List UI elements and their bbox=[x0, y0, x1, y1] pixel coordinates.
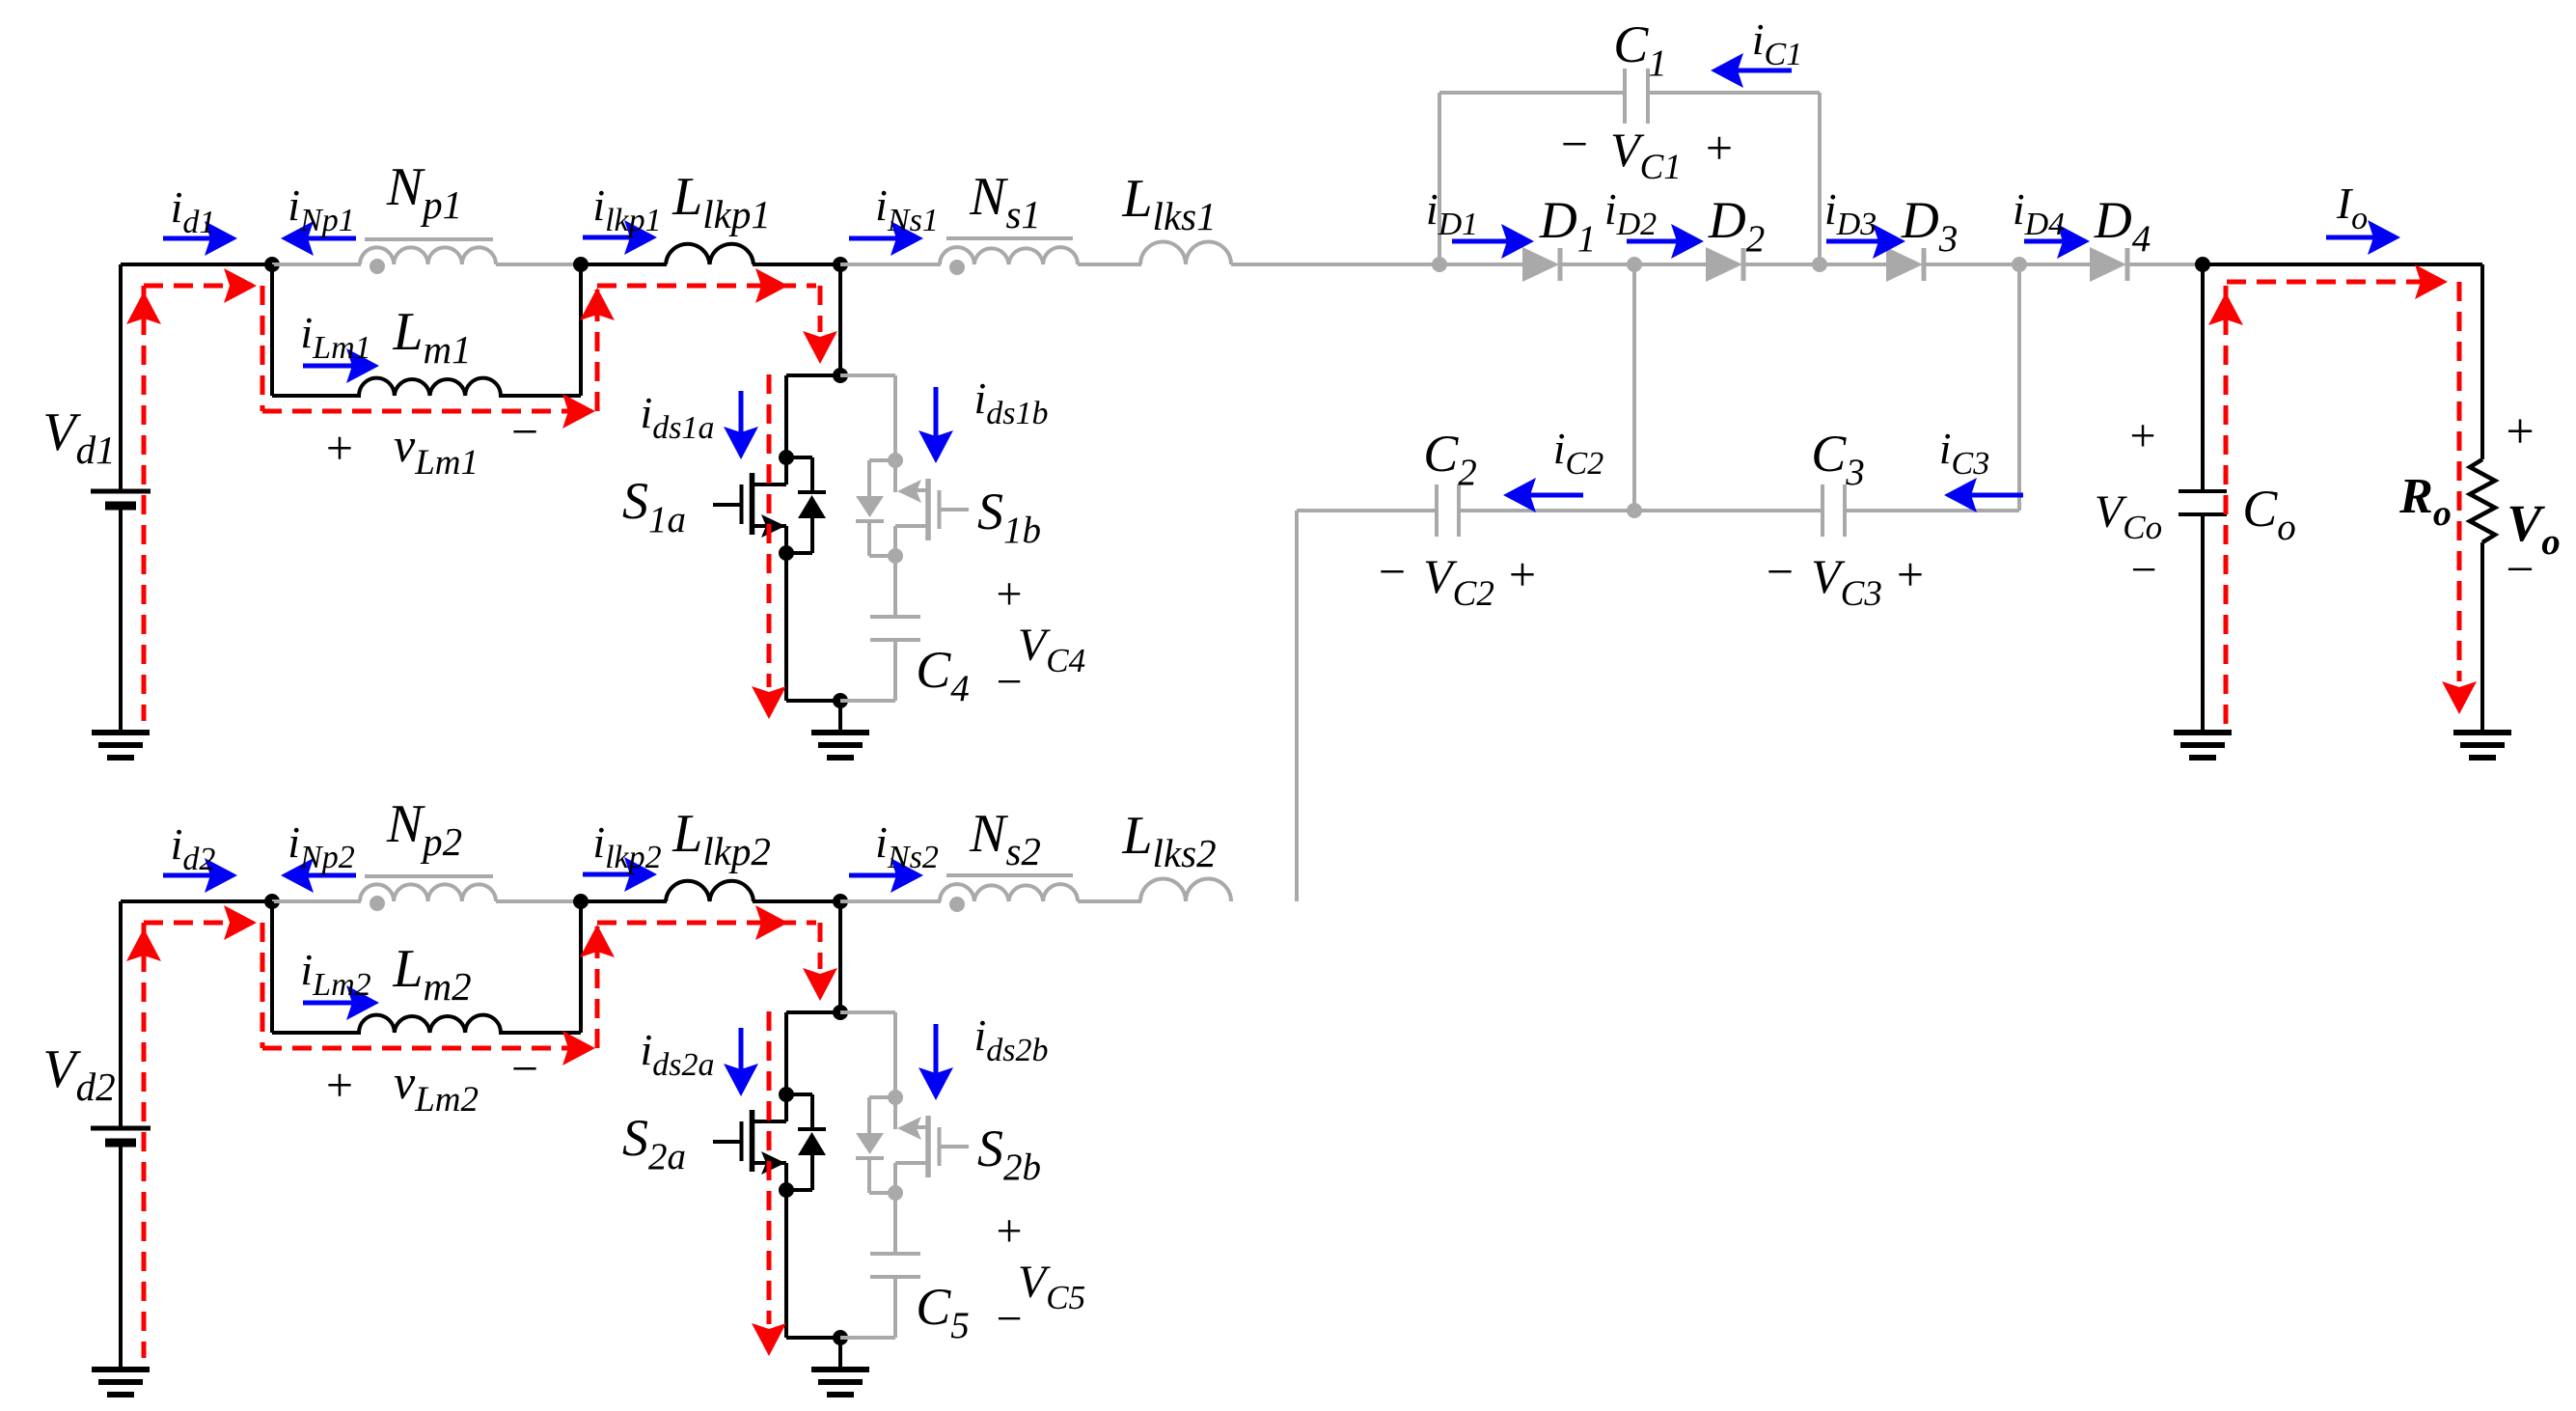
capacitor C2 bbox=[1435, 484, 1439, 537]
svg-text:+: + bbox=[326, 421, 353, 475]
node B (C2 junction) bbox=[1560, 263, 1638, 266]
wire S1a source to ground bbox=[784, 553, 788, 701]
svg-text:S2a: S2a bbox=[622, 1109, 686, 1177]
svg-text:D1: D1 bbox=[1539, 191, 1597, 260]
svg-text:C4: C4 bbox=[916, 641, 970, 709]
node E output bbox=[2195, 257, 2210, 272]
red current path under rail 1 part1 bbox=[144, 284, 259, 289]
MOSFET S2a bbox=[784, 1094, 788, 1121]
blue arrow ilkp2 bbox=[583, 872, 630, 877]
svg-text:iLm1: iLm1 bbox=[300, 308, 370, 366]
node N3-2 bbox=[833, 894, 848, 909]
svg-text:Co: Co bbox=[2242, 480, 2296, 548]
svg-text:iNs1: iNs1 bbox=[875, 180, 939, 238]
blue arrow iNs2 bbox=[849, 873, 896, 878]
svg-text:iD3: iD3 bbox=[1824, 184, 1877, 242]
blue arrow iNp2 bbox=[308, 873, 356, 878]
svg-text:D4: D4 bbox=[2094, 191, 2151, 260]
magnetizing inductor Lm1 loop bbox=[270, 264, 274, 396]
node N4-2 bbox=[833, 1005, 848, 1020]
node primary-dot junction bbox=[264, 257, 280, 272]
blue arrow iD4 bbox=[2024, 239, 2063, 244]
clamp capacitor C4 bbox=[893, 556, 897, 617]
capacitor C1 loop bbox=[1438, 93, 1441, 264]
node C2-C3 row junction bbox=[1627, 503, 1642, 518]
svg-text:Llkp1: Llkp1 bbox=[671, 167, 771, 236]
wire to S1a drain bbox=[786, 373, 840, 377]
diode D2 bbox=[1634, 263, 1707, 266]
node C (C1 right junction) bbox=[1743, 263, 1823, 266]
transformer primary polarity dot Np1 bbox=[370, 259, 385, 274]
svg-text:Ns1: Ns1 bbox=[969, 167, 1041, 236]
svg-text:S1a: S1a bbox=[622, 472, 686, 540]
clamp capacitor C5 bbox=[893, 1193, 897, 1254]
svg-text:+: + bbox=[326, 1058, 353, 1112]
node N1-1 bbox=[573, 257, 589, 272]
wire output top rail bbox=[2203, 263, 2482, 266]
node S2b source bbox=[888, 1185, 903, 1201]
svg-text:Llkp2: Llkp2 bbox=[671, 804, 771, 873]
svg-text:D3: D3 bbox=[1901, 191, 1959, 260]
red current path Lm2 loop bbox=[260, 923, 265, 1048]
svg-text:id2: id2 bbox=[171, 819, 216, 877]
red current path under rail 2 part2 bbox=[597, 921, 816, 926]
svg-text:−: − bbox=[2506, 542, 2534, 597]
blue arrow iD1 bbox=[1452, 239, 1507, 244]
wire to S2b drain (gray) bbox=[840, 1010, 895, 1014]
blue arrow ilkp1 bbox=[583, 235, 630, 240]
svg-text:C5: C5 bbox=[916, 1278, 970, 1346]
blue arrow iC2 bbox=[1530, 493, 1583, 498]
svg-text:Vd1: Vd1 bbox=[42, 402, 115, 472]
secondary leakage inductor Llks1 bbox=[1140, 242, 1231, 265]
svg-text:−: − bbox=[1767, 544, 1794, 598]
svg-text:Io: Io bbox=[2336, 179, 2368, 236]
MOSFET S1b bbox=[893, 460, 897, 492]
svg-text:vLm2: vLm2 bbox=[394, 1055, 479, 1120]
red current path output top bbox=[2227, 280, 2426, 285]
svg-text:Ro: Ro bbox=[2398, 469, 2452, 534]
svg-text:Np1: Np1 bbox=[386, 157, 462, 227]
svg-text:Llks1: Llks1 bbox=[1121, 169, 1216, 238]
ground battery Vd2 bbox=[92, 1367, 150, 1372]
svg-text:+: + bbox=[1897, 547, 1924, 601]
svg-text:C2: C2 bbox=[1423, 425, 1477, 493]
blue arrow id1 bbox=[163, 236, 210, 241]
svg-text:Llks2: Llks2 bbox=[1121, 806, 1216, 875]
transformer primary Np1 winding bbox=[272, 263, 361, 266]
ground Co bbox=[2174, 730, 2232, 735]
body diode S1b bbox=[869, 458, 895, 462]
red current path into switch 2 bbox=[818, 923, 823, 969]
svg-text:ids2a: ids2a bbox=[640, 1025, 714, 1083]
wire from Llks2 up to C2 row bbox=[1295, 511, 1299, 901]
battery Vd1 bbox=[119, 264, 123, 491]
node D (C3 junction) bbox=[1924, 263, 2023, 266]
node A (C1 left junction) bbox=[1432, 257, 1447, 272]
wire C2 branch down from node B bbox=[1632, 264, 1636, 511]
svg-text:id1: id1 bbox=[171, 182, 216, 240]
red current path under rail 1 part2 bbox=[597, 284, 816, 289]
svg-text:iLm2: iLm2 bbox=[300, 945, 370, 1003]
blue arrow Io bbox=[2326, 235, 2373, 240]
red current path battery2 up bbox=[142, 923, 147, 1358]
red current path output Co up bbox=[2224, 286, 2229, 724]
svg-text:Ns2: Ns2 bbox=[969, 804, 1041, 873]
ground Ro bbox=[2453, 730, 2511, 735]
wire switch branch down bbox=[838, 264, 842, 375]
svg-text:iD1: iD1 bbox=[1426, 184, 1478, 242]
MOSFET S1a bbox=[784, 457, 788, 484]
svg-text:Np2: Np2 bbox=[386, 794, 462, 864]
body diode S2a bbox=[786, 1093, 812, 1096]
svg-text:iD4: iD4 bbox=[2013, 184, 2065, 242]
blue arrow iNs1 bbox=[849, 236, 896, 241]
svg-text:+: + bbox=[996, 568, 1022, 620]
ground battery Vd1 bbox=[92, 730, 150, 735]
red current path output Ro down bbox=[2457, 282, 2462, 681]
blue arrow iLm2 bbox=[303, 1001, 352, 1006]
red current path into switch 1 bbox=[818, 286, 823, 332]
svg-text:+: + bbox=[1706, 121, 1733, 175]
svg-text:iNs2: iNs2 bbox=[875, 817, 939, 875]
node S1b drain bbox=[888, 453, 903, 468]
svg-text:C1: C1 bbox=[1613, 15, 1667, 84]
wire S2a source to ground bbox=[784, 1190, 788, 1338]
svg-text:+: + bbox=[996, 1205, 1022, 1257]
wire C3 branch up to node D bbox=[2017, 264, 2021, 511]
blue arrow iC3 bbox=[1971, 493, 2023, 498]
svg-text:+: + bbox=[2129, 410, 2155, 461]
svg-text:iC2: iC2 bbox=[1553, 424, 1603, 482]
transformer secondary Ns2 winding bbox=[840, 899, 941, 903]
red current path through S1a bbox=[767, 374, 772, 687]
node ground junction 2 bbox=[833, 1330, 848, 1345]
diode D1 bbox=[1439, 263, 1523, 266]
leakage inductor Llkp1 bbox=[581, 263, 667, 266]
wire to S1b drain (gray) bbox=[840, 373, 895, 377]
svg-text:−: − bbox=[2130, 544, 2156, 595]
transformer primary polarity dot Np2 bbox=[370, 896, 385, 911]
wire rail left bbox=[121, 263, 276, 266]
svg-text:iC1: iC1 bbox=[1752, 14, 1802, 72]
transformer secondary polarity dot Ns1 bbox=[949, 260, 965, 275]
node primary-dot junction bbox=[264, 894, 280, 909]
blue arrow iNp1 bbox=[308, 236, 356, 241]
body diode S2b bbox=[869, 1095, 895, 1099]
leakage inductor Llkp2 bbox=[581, 899, 667, 903]
secondary leakage inductor Llks2 bbox=[1140, 878, 1231, 901]
node N3-1 bbox=[833, 257, 848, 272]
blue arrow iD2 bbox=[1627, 239, 1677, 244]
svg-text:Lm1: Lm1 bbox=[392, 302, 471, 372]
svg-text:VC3: VC3 bbox=[1811, 549, 1882, 614]
blue arrow ids2b bbox=[934, 1024, 939, 1073]
diode D3 bbox=[1820, 263, 1887, 266]
transformer secondary polarity dot Ns2 bbox=[949, 897, 965, 912]
node S2a source bbox=[779, 1182, 794, 1198]
wire switch branch down bbox=[838, 901, 842, 1012]
svg-text:C3: C3 bbox=[1811, 425, 1865, 493]
svg-text:+: + bbox=[2506, 404, 2534, 459]
load resistor Ro bbox=[2480, 264, 2484, 459]
svg-text:−: − bbox=[1561, 117, 1588, 171]
wire to S2a drain bbox=[786, 1010, 840, 1014]
MOSFET S2b bbox=[893, 1097, 897, 1129]
svg-text:VC1: VC1 bbox=[1610, 123, 1682, 187]
body diode S1a bbox=[786, 456, 812, 459]
svg-text:iC3: iC3 bbox=[1939, 424, 1989, 482]
blue arrow iLm1 bbox=[303, 364, 352, 369]
node S2b drain bbox=[888, 1090, 903, 1105]
svg-text:VC5: VC5 bbox=[1018, 1257, 1085, 1316]
battery Vd2 bbox=[119, 901, 123, 1128]
svg-text:−: − bbox=[996, 656, 1022, 707]
node S1a drain bbox=[779, 450, 794, 465]
svg-text:ilkp2: ilkp2 bbox=[592, 817, 661, 875]
svg-text:ilkp1: ilkp1 bbox=[592, 180, 661, 238]
svg-text:ids1b: ids1b bbox=[973, 373, 1048, 431]
output capacitor Co bbox=[2201, 264, 2205, 491]
svg-text:iD2: iD2 bbox=[1604, 184, 1657, 242]
node S1a source bbox=[779, 545, 794, 561]
blue arrow ids2a bbox=[739, 1028, 744, 1069]
red current path under rail 2 part1 bbox=[144, 921, 259, 926]
svg-text:S1b: S1b bbox=[977, 483, 1041, 551]
wire secondary rail to node A bbox=[1231, 263, 1443, 266]
red current path through S2a bbox=[767, 1011, 772, 1324]
svg-text:D2: D2 bbox=[1708, 191, 1766, 260]
node N1-2 bbox=[573, 894, 589, 909]
capacitor C3 bbox=[1634, 509, 1823, 512]
svg-text:VC4: VC4 bbox=[1018, 620, 1085, 679]
svg-text:S2b: S2b bbox=[977, 1120, 1041, 1188]
ground switch leg 1 bbox=[838, 701, 842, 733]
diode D4 bbox=[2019, 263, 2091, 266]
svg-text:−: − bbox=[1379, 544, 1406, 598]
transformer secondary Ns1 winding bbox=[840, 263, 941, 266]
wire rail left bbox=[121, 899, 276, 903]
ground switch leg 2 bbox=[838, 1338, 842, 1369]
wire D4 to output node bbox=[2129, 263, 2203, 266]
svg-text:−: − bbox=[996, 1293, 1022, 1344]
node S1b source bbox=[888, 548, 903, 564]
svg-text:vLm1: vLm1 bbox=[394, 418, 479, 483]
node N4-1 bbox=[833, 368, 848, 383]
blue arrow id2 bbox=[163, 873, 210, 878]
blue arrow ids1b bbox=[934, 387, 939, 436]
svg-text:+: + bbox=[1509, 547, 1536, 601]
blue arrow ids1a bbox=[739, 391, 744, 432]
svg-text:Lm2: Lm2 bbox=[392, 939, 471, 1009]
blue arrow iD3 bbox=[1826, 239, 1878, 244]
node S2a drain bbox=[779, 1087, 794, 1102]
red current path battery1 up bbox=[142, 286, 147, 721]
magnetizing inductor Lm2 loop bbox=[270, 901, 274, 1033]
svg-text:VC2: VC2 bbox=[1423, 549, 1494, 614]
svg-text:ids1a: ids1a bbox=[640, 388, 714, 446]
blue arrow iC1 bbox=[1738, 69, 1792, 73]
red current path Lm1 loop bbox=[260, 286, 265, 411]
svg-text:ids2b: ids2b bbox=[973, 1010, 1048, 1068]
node ground junction 1 bbox=[833, 693, 848, 708]
svg-text:Vd2: Vd2 bbox=[42, 1039, 115, 1109]
svg-text:VCo: VCo bbox=[2095, 486, 2162, 546]
transformer primary Np2 winding bbox=[272, 899, 361, 903]
